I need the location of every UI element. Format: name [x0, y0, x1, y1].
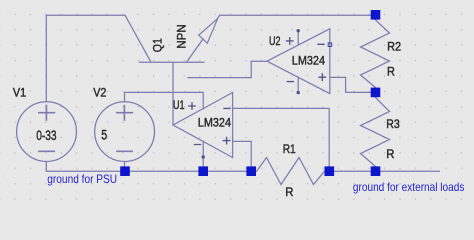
svg-text:R: R: [285, 185, 294, 199]
svg-text:ground for external loads: ground for external loads: [353, 180, 465, 194]
svg-text:R3: R3: [386, 117, 400, 131]
svg-text:5: 5: [101, 126, 107, 142]
svg-text:R: R: [387, 65, 395, 79]
svg-text:R: R: [386, 147, 395, 161]
svg-text:ground for PSU: ground for PSU: [47, 172, 117, 186]
svg-text:LM324: LM324: [292, 54, 325, 68]
svg-text:U2: U2: [269, 34, 281, 48]
svg-text:Q1: Q1: [151, 38, 165, 52]
svg-text:R1: R1: [283, 142, 296, 156]
svg-text:V1: V1: [13, 86, 27, 100]
svg-text:0-33: 0-33: [36, 127, 57, 143]
svg-text:NPN: NPN: [174, 24, 188, 48]
svg-text:LM324: LM324: [198, 116, 231, 130]
svg-text:R2: R2: [387, 40, 401, 54]
svg-text:U1: U1: [173, 98, 185, 112]
svg-text:V2: V2: [93, 86, 106, 100]
